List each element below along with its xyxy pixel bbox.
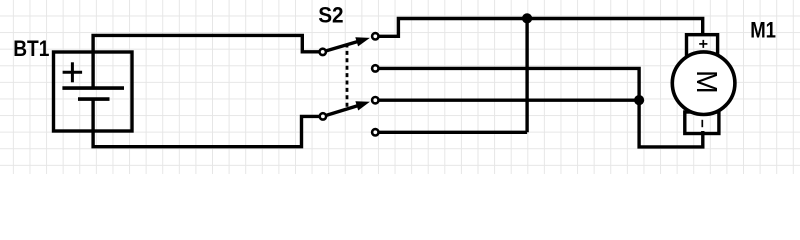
- wire throw 4: [375, 131, 527, 134]
- junction throw 3: [634, 95, 644, 105]
- switch S2 lever 2: [323, 101, 370, 116]
- battery BT1 box: [54, 52, 133, 131]
- motor M1 positive terminal box: [687, 35, 718, 60]
- motor M1 minus sign rotated: [701, 120, 703, 127]
- switch S2 throw contact 2: [372, 65, 378, 71]
- junction top rail: [522, 13, 532, 23]
- motor M1 body circle: [672, 52, 735, 115]
- wire battery negative to switch pole 2: [93, 99, 323, 147]
- switch S2 throw contact 3: [372, 97, 378, 103]
- svg-text:BT1: BT1: [13, 36, 49, 61]
- switch S2 throw contact 4: [372, 129, 378, 135]
- wire top rail down to throw 4 row: [525, 19, 528, 133]
- switch S2 linkage dashed: [346, 44, 349, 108]
- battery BT1 negative plate: [78, 97, 110, 101]
- switch S2 pole 1 contact: [320, 49, 326, 55]
- motor M1 negative terminal box: [685, 112, 719, 134]
- motor M1 plus sign: [699, 40, 707, 48]
- battery BT1 plus sign: [63, 62, 83, 82]
- switch S2 throw contact 1: [372, 33, 378, 39]
- switch S2 lever 1: [323, 37, 370, 52]
- svg-text:M: M: [690, 70, 722, 94]
- svg-text:S2: S2: [318, 2, 343, 27]
- wire throw 2 to motor negative: [375, 68, 703, 146]
- svg-text:M1: M1: [750, 17, 776, 42]
- wire throw 3 to junction: [375, 98, 639, 101]
- battery BT1 positive plate: [62, 86, 124, 90]
- wire throw 1 to motor positive (top rail): [375, 19, 702, 37]
- wire battery positive to switch pole 1: [93, 35, 323, 88]
- switch S2 pole 2 contact: [320, 113, 326, 119]
